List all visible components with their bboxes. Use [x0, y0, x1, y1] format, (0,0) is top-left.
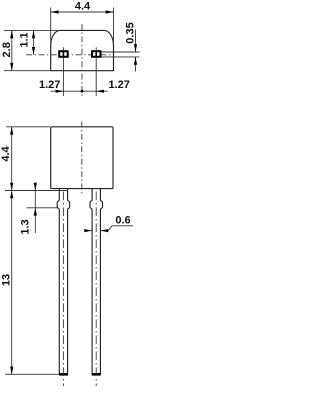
lead 1 left edge with crimp bump — [57, 189, 59, 374]
dim 1.27 center dot (shared at centerline) — [81, 90, 84, 93]
dim 4.4 side arrowheads — [10, 127, 13, 135]
lead 2 left edge with crimp bump — [90, 189, 92, 374]
svg-text:1.3: 1.3 — [20, 219, 32, 234]
dim 0.35 arrowheads — [134, 44, 137, 52]
dim 13 bottom extension line — [5, 373, 59, 375]
svg-text:0.6: 0.6 — [115, 215, 130, 227]
dim 4.4 (top width) extension lines — [51, 8, 114, 47]
shared extension line at body bottom — [5, 190, 68, 192]
dim 0.35 dimension line (vertical, outside arrows) — [135, 30, 137, 72]
dim 4.4 (top width) dimension line — [51, 11, 114, 13]
svg-text:2.8: 2.8 — [1, 42, 13, 57]
lead 1 right edge with crimp bump — [68, 189, 70, 374]
dim 1.1 arrowheads — [32, 30, 35, 38]
dim 1.3 dimension line with outside arrows — [34, 184, 36, 233]
dim 4.4 (body height) top extension line — [6, 126, 50, 128]
dim 1.27 left arrowhead (points right at pad1 line) — [56, 90, 64, 93]
dim 0.6 leader line to text — [108, 226, 133, 231]
dim 4.4 (body height) dimension line — [11, 127, 13, 191]
dim 1.1 dimension line — [33, 30, 35, 54]
lead 2 right edge with crimp bump — [100, 189, 102, 374]
svg-text:4.4: 4.4 — [0, 145, 12, 161]
dim 1.27 left: dimension line with outside arrow — [51, 90, 108, 92]
lead 1 bottom tip (bold) — [59, 373, 68, 376]
lead 2 bottom tip (bold) — [92, 373, 101, 376]
horizontal center line (dash-dot) top view — [26, 54, 113, 56]
dim 13 dimension line — [11, 191, 13, 375]
dim 2.8 arrowheads — [10, 30, 13, 38]
dim 1.3 arrowheads — [34, 183, 37, 191]
pad 2 (right lead cross-section) — [92, 51, 101, 57]
svg-text:13: 13 — [1, 274, 13, 286]
dim 1.27 right arrowhead (points left at pad2 line) — [96, 90, 104, 93]
dim 0.6 left arrow (points right at lead2 left edge) — [84, 230, 92, 232]
dim 2.8 dimension line — [11, 30, 13, 70]
dim 4.4 arrowheads — [51, 10, 59, 13]
svg-text:4.4: 4.4 — [75, 1, 91, 13]
dim 1.3 extension line (crimp bottom level) — [27, 207, 58, 209]
lead 1 center line (dash-dot) — [62, 192, 64, 387]
pad 1 center tick — [62, 47, 64, 96]
body outline (top view, rounded top corners) — [51, 30, 114, 70]
dim 0.35 extension lines (pad2 top/bottom, to the right) — [101, 52, 140, 57]
svg-text:0.35: 0.35 — [125, 22, 137, 43]
lead 2 center line (dash-dot) — [95, 192, 97, 387]
vertical center line (dash-dot) side view — [81, 122, 83, 197]
svg-text:1.27: 1.27 — [39, 79, 60, 91]
dim 13 arrowheads — [10, 191, 13, 199]
pad 1 (left lead cross-section) — [59, 51, 67, 57]
pad 2 center tick — [95, 47, 97, 96]
svg-text:1.27: 1.27 — [108, 79, 129, 91]
dim 2.8 (left height) extension lines — [4, 30, 59, 70]
vertical center line (dash-dot) top view — [81, 24, 83, 97]
body outline (side view rectangle) — [51, 127, 113, 189]
dim 0.6 right arrow (points left at lead2 right edge) — [100, 230, 108, 232]
svg-text:1.1: 1.1 — [18, 32, 30, 47]
